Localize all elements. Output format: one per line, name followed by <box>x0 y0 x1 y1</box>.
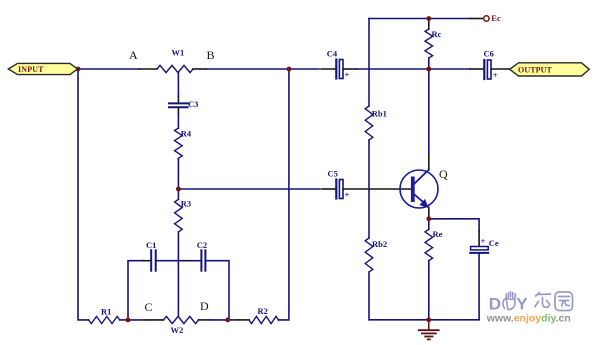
resistor R3 <box>175 199 183 232</box>
capacitor Ce (emitter bypass, polarized) <box>470 236 488 253</box>
node: B junction dot <box>287 67 292 72</box>
svg-text:+: + <box>345 190 350 200</box>
port OUTPUT flag <box>510 63 590 76</box>
svg-text:Re: Re <box>433 229 443 239</box>
wire: B junction to C4 <box>289 68 319 70</box>
svg-text:Rc: Rc <box>432 29 442 39</box>
watermark DIY logo <box>486 292 573 325</box>
node: mid junction dot (R4/R3/C5) <box>176 187 181 192</box>
svg-text:Ce: Ce <box>489 238 499 248</box>
svg-text:Rb2: Rb2 <box>372 239 387 249</box>
resistor Rb2 <box>365 238 373 272</box>
wire: W1 wiper down to C3 <box>177 73 179 96</box>
wire: emitter node to Re <box>428 219 430 230</box>
wire: black lead into C1 <box>143 260 150 262</box>
node: INPUT junction dot <box>76 67 81 72</box>
svg-text:+: + <box>481 236 486 246</box>
resistor Rb1 <box>365 106 373 140</box>
wire: C2 to right stub, down to node D <box>205 261 229 320</box>
svg-text:www.enjoydiy.cn: www.enjoydiy.cn <box>486 312 571 324</box>
wire: top supply rail y=18.5 <box>369 18 429 20</box>
node: collector dot <box>426 67 431 72</box>
wire: ground rail from ground node to Ce branch <box>429 319 479 321</box>
node: emitter dot <box>426 216 431 221</box>
wire: C1 to center (crosses center line) <box>156 260 184 262</box>
svg-text:B: B <box>207 48 215 62</box>
node: ground dot <box>426 317 431 322</box>
wire: node D junction to R2 <box>228 319 237 321</box>
svg-text:C5: C5 <box>328 169 338 179</box>
wire: mid junction row y=189 to C5 <box>178 188 320 190</box>
svg-text:+: + <box>493 70 498 80</box>
wire: C3 to R4 <box>177 107 179 115</box>
svg-text:Ec: Ec <box>491 13 501 23</box>
capacitor C2 <box>201 250 205 270</box>
wire: black lead into W1 <box>139 68 157 70</box>
svg-text:D: D <box>489 295 501 314</box>
transistor Q (NPN) <box>400 170 438 208</box>
capacitor C5 (feedback coupling, polarized) <box>336 180 349 200</box>
wire: emitter down to emitter node <box>428 208 430 219</box>
wire: collector node to C6 <box>429 68 470 70</box>
wire: Rb1 to Rb2 (crosses base row) <box>368 140 370 238</box>
svg-text:Q: Q <box>439 167 448 181</box>
svg-text:OUTPUT: OUTPUT <box>518 66 552 75</box>
svg-text:C1: C1 <box>146 240 156 250</box>
wire: black lead into C4 <box>321 68 335 70</box>
wire: R1 to node C junction <box>120 319 128 321</box>
resistor R4 <box>175 128 183 158</box>
node: D junction dot <box>225 318 230 323</box>
svg-text:D: D <box>200 299 209 313</box>
resistor R1 <box>89 316 120 323</box>
wire: mid junction to R3 <box>177 189 179 199</box>
wire: W1 to junction at B branch <box>206 68 289 70</box>
wire: main signal row y=69 from INPUT node to W1 <box>78 68 139 70</box>
svg-text:Rb1: Rb1 <box>372 109 387 119</box>
svg-text:W1: W1 <box>172 48 185 58</box>
ground <box>419 320 439 340</box>
svg-text:R3: R3 <box>181 199 191 209</box>
wire: Rc to collector node <box>428 58 430 69</box>
wire: black lead from W1 to node B segment <box>193 68 206 70</box>
svg-text:R4: R4 <box>181 129 192 139</box>
capacitor C4 (coupling, polarized) <box>336 60 349 80</box>
svg-text:R2: R2 <box>258 306 268 316</box>
svg-text:C6: C6 <box>484 49 494 59</box>
wire: W2 to node D junction <box>211 319 228 321</box>
wire: R4 down to mid junction <box>177 158 179 189</box>
svg-text:C4: C4 <box>327 49 338 59</box>
wire: black lead into C6 <box>470 68 483 70</box>
wire: black lead from W2 <box>199 319 212 321</box>
watermark 园 glyph <box>555 292 573 311</box>
wire: collector node down to transistor collector <box>428 69 430 155</box>
wire: Re down to ground node <box>428 261 430 320</box>
node: supply rail dot <box>426 16 431 21</box>
wire: stub from node C up to C1 row <box>128 261 143 320</box>
svg-text:R1: R1 <box>101 307 111 317</box>
svg-text:Y: Y <box>516 295 528 314</box>
svg-text:A: A <box>129 48 138 62</box>
resistor R2 <box>249 316 278 323</box>
wire: C4 to collector node row (crosses bias line) <box>357 68 429 70</box>
svg-text:+: + <box>345 70 350 80</box>
potentiometer W2 (bass pot, bottom) <box>164 316 199 323</box>
svg-text:C3: C3 <box>188 99 198 109</box>
capacitor C1 <box>151 250 156 270</box>
resistor Re <box>425 229 433 260</box>
wire: Ce down to ground rail <box>478 253 480 320</box>
wire: emitter node right to Ce branch <box>429 219 479 231</box>
wire: C5 to transistor base (black, crosses bias line) <box>343 188 411 190</box>
capacitor C6 (output coupling, polarized) <box>484 60 497 80</box>
svg-text:C2: C2 <box>197 240 207 250</box>
wire: collector branch from rail node down to Rc <box>428 19 430 30</box>
wire: R2 up to node B branch <box>279 69 289 320</box>
svg-text:W2: W2 <box>171 325 184 335</box>
wire: R3 down to W2 wiper (crosses C1-C2 row) <box>177 232 179 316</box>
svg-text:INPUT: INPUT <box>18 65 44 74</box>
resistor Rc <box>425 29 433 58</box>
potentiometer W1 (treble pot, top) <box>157 65 193 72</box>
power terminal Ec (supply) <box>484 16 489 21</box>
wire: bias divider line x=369 from rail down through base row to bottom <box>368 19 370 107</box>
watermark 乐 glyph <box>535 293 551 308</box>
wire: black lead out of C4 <box>343 68 357 70</box>
svg-text:C: C <box>145 300 153 314</box>
wire: Rb2 down to ground rail <box>369 272 429 320</box>
wire: bottom rail node C to W2 (navy then black dash) <box>128 319 146 321</box>
capacitor C3 <box>169 103 188 107</box>
port INPUT flag <box>8 63 77 74</box>
node: C junction dot <box>126 318 131 323</box>
wire: left input branch down x=78 <box>78 69 89 320</box>
wire: C6 to OUTPUT flag <box>491 68 510 70</box>
